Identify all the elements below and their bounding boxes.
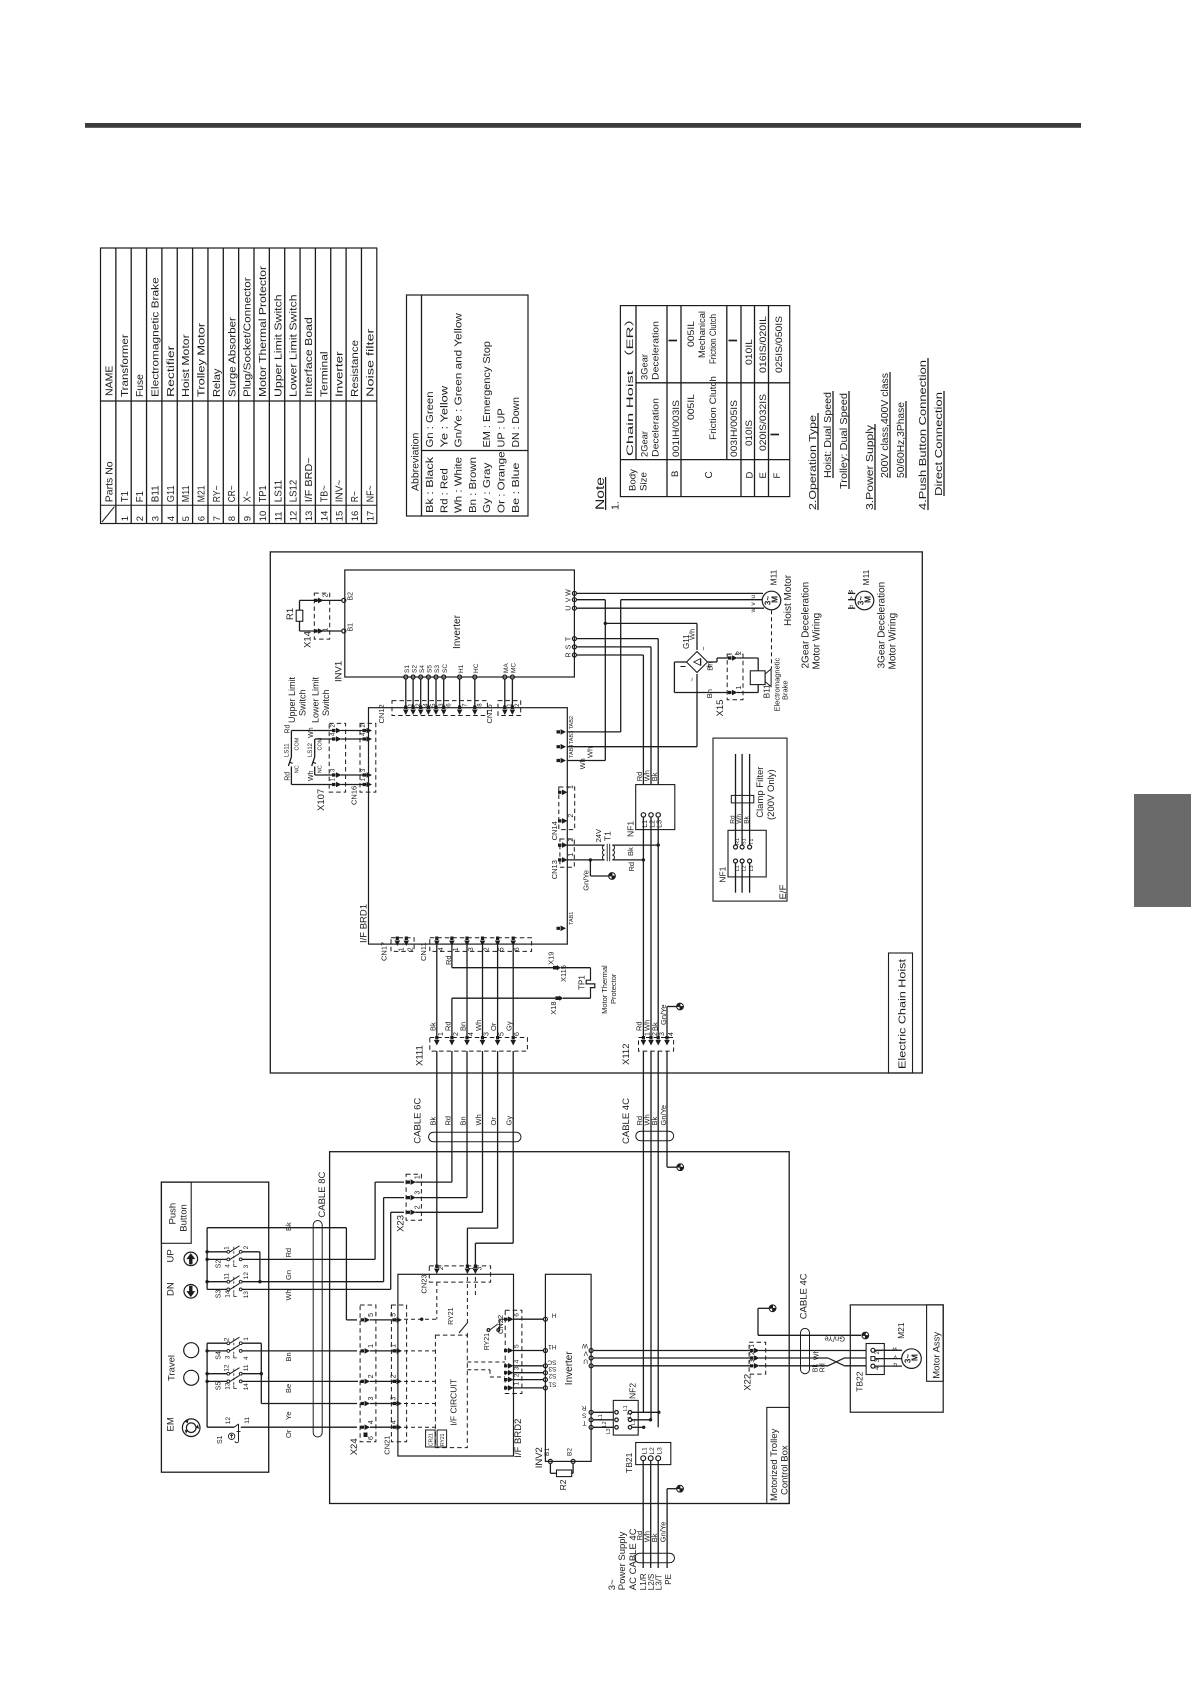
- svg-text:Control Box: Control Box: [780, 1445, 791, 1495]
- svg-text:1: 1: [514, 1381, 521, 1385]
- clamp filter NF1 box: [728, 830, 766, 877]
- svg-text:U: U: [583, 1357, 588, 1364]
- svg-text:u: u: [750, 595, 757, 599]
- wire X24-CN21 pin 4: [370, 1426, 398, 1428]
- resistor R1: [299, 600, 301, 610]
- svg-text:UP: UP: [166, 1249, 177, 1262]
- svg-text:CABLE 4C: CABLE 4C: [799, 1273, 810, 1319]
- svg-text:B2: B2: [567, 1448, 574, 1456]
- INV1 pin S1: [404, 675, 408, 679]
- svg-text:S2: S2: [548, 1372, 556, 1379]
- connector CN14: [559, 787, 575, 830]
- board tab TAB3: [557, 744, 567, 750]
- connector X112: [639, 1038, 674, 1052]
- svg-text:M: M: [863, 596, 873, 603]
- svg-text:Bk : Black: Bk : Black: [425, 456, 436, 513]
- svg-text:CN21: CN21: [382, 1436, 391, 1455]
- svg-text:Gn/Ye: Gn/Ye: [582, 870, 591, 891]
- svg-text:1: 1: [120, 516, 131, 521]
- board tab TAB2: [557, 729, 567, 735]
- cable 4C motor sheath: [801, 1328, 810, 1373]
- svg-text:2: 2: [407, 947, 414, 951]
- svg-text:G11: G11: [682, 634, 691, 649]
- svg-text:2Gear: 2Gear: [640, 431, 650, 457]
- I/F BRD2 internal dashed wiring: [436, 1282, 438, 1319]
- svg-text:Rd: Rd: [285, 772, 292, 781]
- svg-text:4: 4: [438, 947, 445, 951]
- svg-text:5: 5: [514, 1344, 521, 1348]
- svg-text:Clamp Filter: Clamp Filter: [755, 767, 766, 818]
- svg-text:T: T: [566, 636, 573, 641]
- svg-text:TAB3: TAB3: [569, 731, 575, 744]
- svg-text:TAB2: TAB2: [569, 716, 575, 729]
- switch S4: [207, 1342, 227, 1344]
- wires INV2 UVW to X22: [593, 1350, 752, 1352]
- svg-text:13: 13: [243, 1291, 250, 1299]
- svg-text:CR21: CR21: [429, 1433, 435, 1446]
- svg-text:2Gear Deceleration: 2Gear Deceleration: [801, 582, 812, 669]
- svg-text:X24: X24: [349, 1438, 360, 1455]
- svg-text:1.: 1.: [610, 501, 622, 510]
- wire cable Wh to X23 pin2: [416, 1211, 483, 1213]
- svg-text:Friction Clutch: Friction Clutch: [708, 314, 718, 364]
- link S4 to S5 and Ye drop: [260, 1343, 262, 1403]
- svg-text:Protector: Protector: [609, 973, 618, 1004]
- wire LS12 NC to X107 pin3: [315, 774, 334, 776]
- svg-text:6: 6: [368, 1436, 375, 1440]
- svg-text:1: 1: [568, 853, 575, 857]
- terminal block TB22: [866, 1344, 884, 1375]
- wire LS11 NC to X107 pin1: [291, 784, 334, 786]
- connector CN17: [391, 938, 414, 952]
- svg-text:1: 1: [391, 1344, 398, 1348]
- svg-text:Rectifier: Rectifier: [166, 345, 177, 397]
- svg-text:2: 2: [453, 1032, 460, 1036]
- svg-text:CABLE 6C: CABLE 6C: [413, 1098, 424, 1144]
- ground inside trolley box for hoist cable: [667, 1166, 677, 1168]
- svg-text:13: 13: [224, 1382, 231, 1390]
- svg-text:NF1: NF1: [718, 866, 728, 882]
- INV2 outputs W V U: [589, 1349, 593, 1353]
- svg-text:CN11: CN11: [419, 942, 428, 961]
- thermal protector TP1: [561, 967, 591, 969]
- svg-text:S5: S5: [216, 1382, 223, 1391]
- svg-text:2: 2: [224, 1337, 231, 1341]
- svg-text:TP1: TP1: [578, 975, 587, 990]
- connector CN13: [560, 839, 574, 867]
- svg-text:3: 3: [477, 1266, 484, 1270]
- svg-text:025IS/050IS: 025IS/050IS: [774, 316, 784, 373]
- electric chain hoist label box: [889, 953, 913, 1073]
- board tab TAB4: [557, 758, 567, 764]
- svg-text:3: 3: [368, 1397, 375, 1401]
- svg-text:3: 3: [484, 1032, 491, 1036]
- svg-text:5: 5: [499, 1032, 506, 1036]
- INV1 pin SC: [442, 675, 446, 679]
- inverter INV1 box: [345, 570, 575, 677]
- svg-text:2: 2: [438, 1266, 445, 1270]
- svg-text:Gy: Gy: [505, 1116, 514, 1126]
- svg-text:Wh: Wh: [474, 1020, 483, 1031]
- svg-text:Wh: Wh: [474, 1114, 483, 1125]
- svg-text:UP : UP: UP : UP: [497, 408, 508, 448]
- svg-text:2: 2: [323, 594, 330, 598]
- svg-text:3: 3: [468, 947, 475, 951]
- svg-text:3: 3: [224, 1355, 231, 1359]
- svg-text:L2: L2: [649, 1447, 656, 1455]
- svg-text:2: 2: [874, 1351, 881, 1355]
- svg-text:RY21: RY21: [484, 1333, 491, 1350]
- connector X19: [553, 965, 561, 970]
- svg-text:2: 2: [391, 1374, 398, 1378]
- svg-text:SC: SC: [547, 1358, 556, 1365]
- svg-text:S: S: [582, 1411, 587, 1418]
- svg-text:3: 3: [243, 1264, 250, 1268]
- svg-text:Switch: Switch: [321, 689, 331, 716]
- wires TB22 to motor M21: [875, 1349, 902, 1351]
- svg-text:S4: S4: [419, 665, 426, 673]
- svg-text:M: M: [910, 1354, 920, 1361]
- cable 8C sheath: [313, 1221, 322, 1438]
- NF1 output wires to X112: [642, 817, 644, 1037]
- svg-text:3: 3: [514, 1366, 521, 1370]
- svg-text:INV~: INV~: [335, 480, 346, 503]
- svg-text:S1: S1: [404, 665, 411, 673]
- svg-text:CN23: CN23: [420, 1274, 429, 1293]
- svg-text:3.Power Supply: 3.Power Supply: [864, 424, 876, 510]
- wire G11 minus to X15 pin1: [674, 661, 686, 663]
- trolley motor M21: [902, 1349, 922, 1369]
- svg-text:Plug/Socket/Connector: Plug/Socket/Connector: [243, 277, 254, 397]
- svg-text:COM: COM: [294, 737, 300, 750]
- svg-text:Wh: Wh: [736, 814, 743, 824]
- svg-text:1: 1: [453, 947, 460, 951]
- AC cable sheath: [635, 1553, 675, 1563]
- svg-text:X15: X15: [715, 700, 726, 717]
- svg-text:Body: Body: [628, 468, 638, 491]
- svg-text:4: 4: [166, 516, 177, 521]
- svg-text:S: S: [566, 644, 573, 649]
- hoist motor M11 3gear illustration: [855, 591, 874, 610]
- svg-text:Parts No: Parts No: [104, 461, 116, 502]
- svg-text:Surge Absorber: Surge Absorber: [227, 316, 238, 397]
- svg-text:12: 12: [289, 511, 300, 522]
- wire TAB3 to G11: [567, 746, 697, 748]
- svg-text:3: 3: [151, 516, 162, 521]
- wire cable Bn to X23 pin3: [416, 1197, 468, 1199]
- svg-text:10: 10: [258, 511, 269, 522]
- svg-text:2: 2: [514, 1373, 521, 1377]
- svg-text:(200V Only): (200V Only): [766, 769, 777, 820]
- svg-text:Electromagnetic Brake: Electromagnetic Brake: [151, 277, 162, 397]
- svg-text:HC: HC: [473, 663, 480, 673]
- svg-text:010IL: 010IL: [744, 339, 754, 365]
- svg-text:S1: S1: [548, 1380, 556, 1387]
- svg-text:Push: Push: [168, 1203, 179, 1225]
- svg-text:u: u: [893, 1361, 897, 1368]
- svg-text:B11: B11: [763, 684, 772, 698]
- connector X23: [406, 1174, 421, 1220]
- wire G11 plus to X15 pin2: [708, 661, 718, 663]
- svg-text:S3: S3: [216, 1290, 223, 1299]
- svg-text:EM : Emergency Stop: EM : Emergency Stop: [482, 341, 493, 448]
- pushbutton riser Gn to X23 pin3: [384, 1197, 404, 1199]
- INV1 pin MC: [510, 675, 514, 679]
- trolley ground to motor: [769, 1305, 776, 1312]
- svg-text:Motor Wiring: Motor Wiring: [888, 613, 899, 670]
- wire cable Gy jog to CN23 pin3: [512, 1152, 514, 1243]
- INV1 output U V W: [572, 591, 576, 595]
- svg-text:Deceleration: Deceleration: [651, 398, 661, 457]
- svg-text:Fuse: Fuse: [135, 374, 146, 397]
- wire Ye from link: [261, 1403, 357, 1405]
- svg-text:X18: X18: [549, 1001, 558, 1014]
- svg-text:CN16: CN16: [350, 786, 359, 805]
- cable 4C hoist wires: [642, 1051, 644, 1412]
- wires X22 to motor cable: [759, 1350, 867, 1352]
- svg-text:CN17: CN17: [380, 942, 389, 961]
- svg-text:6: 6: [514, 1313, 521, 1317]
- svg-text:LS12: LS12: [308, 742, 314, 757]
- svg-text:50/60Hz,3Phase: 50/60Hz,3Phase: [895, 402, 907, 478]
- svg-text:w: w: [750, 608, 757, 614]
- svg-text:H: H: [552, 1312, 557, 1319]
- svg-text:R~: R~: [350, 491, 361, 502]
- svg-text:Inverter: Inverter: [452, 614, 463, 649]
- svg-text:Mechanical: Mechanical: [697, 311, 707, 358]
- svg-text:Wh: Wh: [284, 1289, 293, 1300]
- svg-text:15: 15: [335, 511, 346, 522]
- svg-text:B1: B1: [348, 623, 355, 632]
- svg-text:Inverter: Inverter: [564, 1351, 575, 1386]
- svg-text:Chain Hoist （ER）: Chain Hoist （ER）: [624, 310, 636, 456]
- svg-text:X115: X115: [559, 965, 568, 982]
- svg-text:S1: S1: [217, 1435, 224, 1444]
- svg-text:LS11: LS11: [285, 743, 291, 757]
- svg-text:Or: Or: [489, 1117, 498, 1126]
- svg-text:I/F CIRCUIT: I/F CIRCUIT: [449, 1379, 459, 1426]
- svg-text:R: R: [566, 652, 573, 657]
- svg-text:S2: S2: [216, 1260, 223, 1269]
- motorized trolley label box: [767, 1407, 789, 1503]
- wire V phase into board: [576, 599, 605, 601]
- svg-text:R2: R2: [558, 1479, 568, 1490]
- noise filter NF1: [636, 785, 675, 830]
- connector CN23: [429, 1266, 490, 1282]
- svg-text:17: 17: [365, 511, 376, 522]
- svg-text:1: 1: [398, 947, 405, 951]
- limit switch LS12: [314, 739, 316, 757]
- inverter terminal B1: [342, 629, 346, 633]
- svg-text:X111: X111: [415, 1045, 426, 1066]
- svg-text:Rd: Rd: [627, 862, 636, 872]
- svg-text:3: 3: [415, 1191, 422, 1195]
- connector X22: [749, 1342, 766, 1374]
- svg-text:Button: Button: [179, 1204, 190, 1231]
- noise filter NF2: [613, 1400, 638, 1435]
- svg-text:Travel: Travel: [167, 1355, 178, 1381]
- cable 6C sheath symbol: [429, 1132, 521, 1142]
- inverter INV2 box: [545, 1274, 591, 1461]
- svg-text:14: 14: [224, 1290, 231, 1298]
- svg-text:LS11: LS11: [273, 479, 284, 502]
- svg-text:M11: M11: [769, 569, 779, 585]
- svg-text:Wh : White: Wh : White: [454, 457, 465, 513]
- svg-text:D: D: [745, 472, 756, 479]
- svg-text:Motorized Trolley: Motorized Trolley: [769, 1428, 780, 1501]
- electromagnetic brake B11: [737, 657, 758, 659]
- svg-text:Ye : Yellow: Ye : Yellow: [439, 385, 450, 448]
- connector X24: [360, 1305, 376, 1442]
- INV2 control inputs: [543, 1317, 547, 1321]
- wire X24-CN21 pin 2: [370, 1380, 398, 1382]
- svg-text:11: 11: [273, 511, 284, 521]
- svg-text:2: 2: [736, 651, 743, 655]
- svg-text:4: 4: [668, 1032, 675, 1036]
- svg-text:010IS: 010IS: [744, 420, 754, 446]
- svg-text:1: 1: [644, 1032, 651, 1036]
- svg-text:Hoist Motor: Hoist Motor: [181, 333, 192, 397]
- svg-text:CABLE 8C: CABLE 8C: [317, 1172, 328, 1218]
- relay contact RY21 a: [459, 1322, 468, 1333]
- svg-text:X107: X107: [316, 789, 327, 811]
- svg-text:6: 6: [514, 1032, 521, 1036]
- svg-text:L2: L2: [627, 1412, 633, 1418]
- svg-text:Ye: Ye: [284, 1412, 293, 1421]
- svg-text:200V class,400V class: 200V class,400V class: [879, 373, 891, 478]
- NF2 outputs to power verticals: [632, 1411, 659, 1413]
- svg-text:X~: X~: [243, 491, 254, 502]
- svg-text:2: 2: [484, 947, 491, 951]
- svg-text:8: 8: [227, 516, 238, 521]
- INV1 pin S4: [419, 675, 423, 679]
- pushbutton riser Wh to X23 pin2: [391, 1211, 404, 1213]
- wire S to NF1 L2: [576, 646, 651, 648]
- svg-text:Noise filter: Noise filter: [365, 328, 376, 397]
- svg-text:Bk: Bk: [813, 1364, 820, 1373]
- svg-text:B1: B1: [544, 1448, 551, 1456]
- svg-text:5: 5: [391, 1313, 398, 1317]
- svg-text:4.Push Button Connection: 4.Push Button Connection: [917, 360, 929, 510]
- svg-text:Bk: Bk: [428, 1022, 437, 1031]
- svg-text:Rd: Rd: [444, 955, 453, 965]
- svg-text:Brake: Brake: [781, 680, 790, 700]
- svg-text:~: ~: [690, 677, 697, 681]
- svg-text:Wh: Wh: [814, 1349, 821, 1360]
- svg-text:Motor Thermal Protector: Motor Thermal Protector: [258, 265, 269, 397]
- motor assy label box: [927, 1305, 944, 1381]
- svg-text:3Gear: 3Gear: [640, 354, 650, 380]
- svg-text:Interface Boad: Interface Boad: [304, 317, 315, 397]
- svg-text:NC: NC: [294, 765, 300, 773]
- bus S4-S5-S1: [206, 1343, 208, 1427]
- svg-text:TB~: TB~: [319, 485, 330, 502]
- svg-text:4: 4: [243, 1356, 250, 1360]
- svg-text:M21: M21: [896, 1322, 906, 1339]
- svg-text:Trolley Motor: Trolley Motor: [197, 322, 208, 397]
- svg-text:F: F: [772, 473, 783, 479]
- dashed wires I/F CIRCUIT to CN22: [467, 1361, 505, 1363]
- svg-text:Rd: Rd: [820, 1363, 827, 1372]
- svg-text:3: 3: [659, 1032, 666, 1036]
- svg-text:Motor Thermal: Motor Thermal: [600, 965, 609, 1014]
- parts table: [101, 248, 377, 524]
- svg-text:Be : Blue: Be : Blue: [511, 462, 522, 513]
- svg-text:M11: M11: [861, 569, 871, 585]
- svg-text:Or: Or: [489, 1022, 498, 1031]
- svg-text:S5: S5: [427, 665, 434, 673]
- svg-text:Gn/Ye : Green and Yellow: Gn/Ye : Green and Yellow: [454, 312, 465, 447]
- wire X24-CN21 pin 5: [370, 1319, 398, 1321]
- I/F CIRCUIT box: [435, 1335, 467, 1448]
- connector CN16: [360, 723, 376, 792]
- svg-text:2.Operation Type: 2.Operation Type: [807, 415, 819, 510]
- svg-text:V: V: [583, 1350, 588, 1357]
- wire TAB2 riser: [567, 731, 620, 733]
- INV1 input R S T: [572, 637, 576, 641]
- svg-text:Gn : Green: Gn : Green: [425, 392, 436, 448]
- connector X14: [314, 593, 329, 639]
- svg-text:W: W: [581, 1342, 588, 1349]
- svg-text:CABLE 4C: CABLE 4C: [621, 1098, 632, 1144]
- svg-text:U: U: [566, 606, 573, 611]
- svg-text:5: 5: [499, 947, 506, 951]
- svg-text:Inverter: Inverter: [335, 351, 346, 397]
- dashed wires CN21 to I/F CIRCUIT: [404, 1350, 435, 1352]
- parts table header cell: [101, 504, 377, 506]
- svg-text:RY~: RY~: [212, 485, 223, 502]
- svg-text:6: 6: [514, 947, 521, 951]
- svg-text:CR~: CR~: [227, 485, 238, 502]
- svg-text:Bk: Bk: [743, 815, 750, 823]
- svg-text:11: 11: [224, 1273, 231, 1280]
- svg-text:12: 12: [224, 1364, 231, 1372]
- svg-text:005IL: 005IL: [686, 394, 696, 420]
- wire W phase to motor: [576, 592, 763, 594]
- abbreviation table: [407, 295, 529, 516]
- connector X18: [555, 996, 563, 1001]
- svg-text:Lower Limit Switch: Lower Limit Switch: [289, 294, 300, 397]
- power wires to supply: [642, 1461, 644, 1568]
- svg-text:12: 12: [243, 1272, 250, 1280]
- svg-text:B11: B11: [151, 485, 162, 502]
- limit switch LS11: [290, 731, 292, 758]
- svg-text:3: 3: [391, 1397, 398, 1401]
- svg-text:Be: Be: [284, 1384, 293, 1393]
- svg-text:1: 1: [438, 1032, 445, 1036]
- svg-text:4: 4: [391, 1420, 398, 1424]
- T1 ground Gn/Ye: [589, 858, 592, 861]
- INV1 pin S2: [411, 675, 415, 679]
- svg-text:1: 1: [736, 686, 743, 690]
- svg-text:INV1: INV1: [334, 661, 345, 682]
- svg-text:M21: M21: [197, 485, 208, 502]
- svg-text:Gn/Ye: Gn/Ye: [659, 1522, 668, 1543]
- svg-text:DN: DN: [166, 1282, 177, 1296]
- svg-text:I/F BRD1: I/F BRD1: [359, 904, 370, 943]
- svg-text:020IS/032IS: 020IS/032IS: [758, 394, 768, 451]
- T1 secondary wires Bk Rd: [612, 844, 658, 846]
- svg-text:I/F BRD~: I/F BRD~: [304, 457, 315, 502]
- svg-text:E: E: [758, 472, 769, 478]
- svg-text:1: 1: [243, 1337, 250, 1341]
- dashed link motor to brake: [771, 610, 773, 668]
- wire X107-CN16 pin 4: [341, 738, 369, 740]
- svg-text:2: 2: [568, 838, 575, 842]
- electric chain hoist enclosure: [270, 552, 922, 1073]
- svg-text:Wh: Wh: [578, 758, 587, 769]
- svg-text:Bk: Bk: [650, 1533, 659, 1542]
